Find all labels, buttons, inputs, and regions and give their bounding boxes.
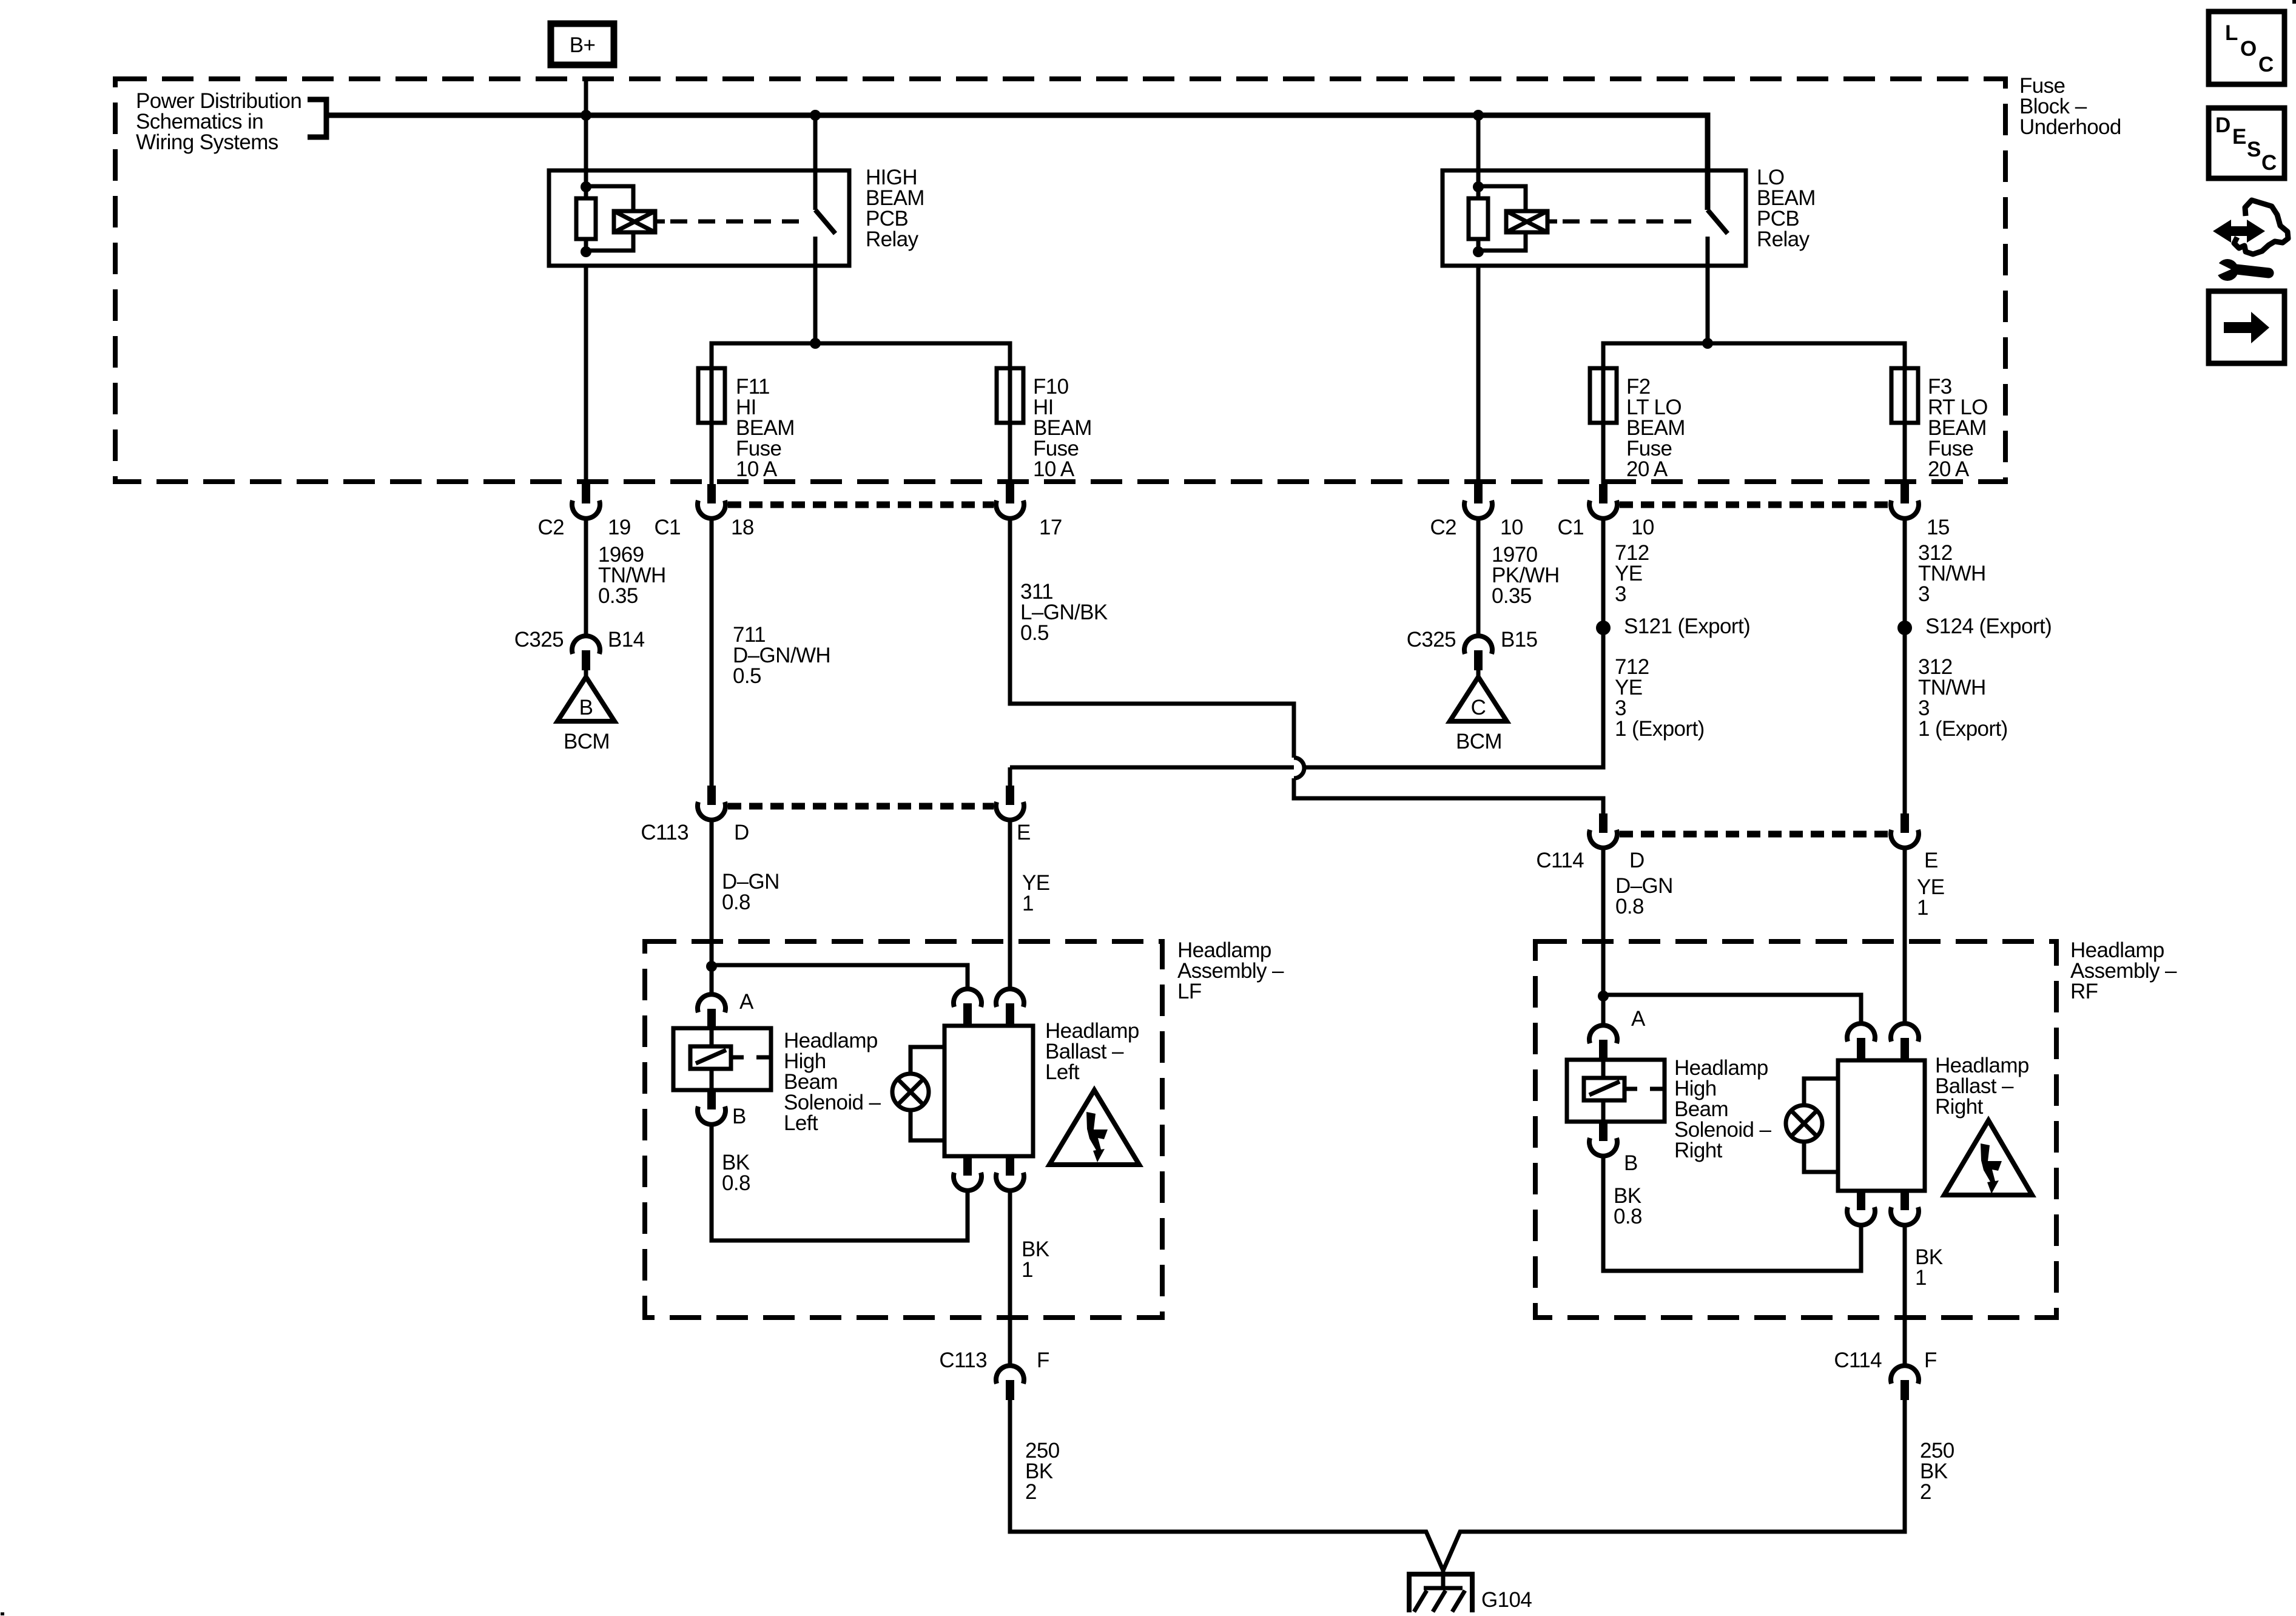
svg-text:C325: C325 — [1407, 628, 1456, 651]
label HIGH BEAM PCB Relay — [866, 166, 924, 251]
label LO BEAM PCB Relay — [1757, 166, 1816, 251]
svg-text:0.8: 0.8 — [722, 1171, 750, 1195]
svg-text:F: F — [1037, 1348, 1049, 1372]
connector C1 pin 10 — [1589, 484, 1617, 519]
wire 250 left to ground — [1010, 1400, 1443, 1571]
label Fuse Block Underhood — [2019, 74, 2121, 139]
label wire YE 1 right — [1917, 875, 1945, 920]
wire feed to HIGH relay switch — [813, 115, 818, 210]
solenoid RF box — [1567, 1060, 1665, 1122]
HIGH relay switch blade — [815, 210, 835, 234]
wire C2-19 from HIGH relay — [584, 266, 588, 484]
label F10 HI BEAM Fuse 10 A — [1033, 375, 1092, 481]
wire 311 from pin 17 to C114-D — [1010, 518, 1603, 813]
icon DESC box — [2209, 108, 2284, 178]
wire C113-E into assembly — [1008, 820, 1012, 991]
label B left — [732, 1105, 746, 1128]
ballast RF box — [1838, 1060, 1925, 1191]
fuse F11 — [698, 368, 725, 423]
wire C325 to BCM B — [584, 670, 588, 681]
label Headlamp Assembly RF — [2070, 938, 2177, 1003]
svg-text:A: A — [1631, 1007, 1646, 1031]
node HIGH relay coil top — [581, 181, 591, 192]
label wire 250 BK 2 left — [1025, 1439, 1060, 1504]
svg-text:S: S — [2247, 138, 2261, 161]
HIGH relay coil — [586, 186, 655, 251]
solenoid LF box — [673, 1028, 771, 1090]
label F2 LT LO BEAM Fuse 20 A — [1626, 375, 1685, 481]
connector RF ballast top left pin — [1847, 1023, 1875, 1060]
wire HIGH relay switch output — [813, 237, 818, 343]
svg-text:1 (Export): 1 (Export) — [1615, 717, 1705, 741]
wire 250 right to ground — [1443, 1400, 1905, 1571]
svg-text:0.5: 0.5 — [1020, 621, 1049, 645]
label wire 250 BK 2 right — [1920, 1439, 1954, 1504]
label C2 / 19 — [537, 516, 630, 539]
svg-text:C114: C114 — [1834, 1348, 1882, 1372]
wire C325 to BCM C — [1476, 670, 1481, 681]
label wire 312 TN/WH 3 1 (Export) — [1918, 655, 2008, 741]
node LO relay coil bottom — [1473, 246, 1484, 257]
label C114 / D / E — [1536, 849, 1937, 872]
label C1 / 18 — [654, 516, 753, 539]
svg-text:0.35: 0.35 — [1492, 584, 1532, 608]
svg-text:1: 1 — [1022, 1258, 1033, 1282]
wire 712 from C1-10 to C113-E — [1010, 518, 1603, 786]
svg-text:1: 1 — [1915, 1266, 1927, 1290]
label wire 1970 PK/WH 0.35 — [1492, 543, 1560, 608]
svg-text:E: E — [2232, 125, 2246, 149]
label Headlamp Assembly LF — [1177, 938, 1284, 1003]
label C1 / 10 — [1557, 516, 1654, 539]
wire ground tail — [1441, 1568, 1446, 1589]
label wire D-GN 0.8 left — [722, 870, 779, 914]
label C325 / B14 — [514, 628, 645, 651]
node HIGH fuse junction — [810, 338, 821, 349]
wire LF solenoid B to ballast — [712, 1124, 968, 1241]
fuse block underhood dashed box — [115, 79, 2005, 482]
label C2 / 10 — [1430, 516, 1523, 539]
label A left — [739, 990, 754, 1014]
relay HIGH BEAM PCB box — [549, 170, 849, 266]
icon arrow box — [2209, 291, 2284, 363]
LO relay resistor — [1469, 187, 1488, 252]
svg-text:B14: B14 — [608, 628, 645, 651]
label wire BK 0.8 right — [1614, 1184, 1642, 1228]
label C113 / F — [939, 1348, 1049, 1372]
svg-text:Right: Right — [1935, 1095, 1984, 1119]
solenoid RF wire through — [1601, 1061, 1606, 1120]
node LO fuse junction — [1702, 338, 1713, 349]
label C114 / F — [1834, 1348, 1936, 1372]
fuse F2 — [1590, 368, 1617, 423]
svg-text:A: A — [739, 990, 754, 1014]
svg-text:C2: C2 — [537, 516, 564, 539]
label wire 311 L-GN/BK 0.5 — [1020, 580, 1108, 645]
label A right — [1631, 1007, 1646, 1031]
connector LF solenoid pin B — [698, 1090, 725, 1125]
svg-text:E: E — [1924, 849, 1938, 872]
node feed junction high relay switch — [810, 110, 821, 121]
svg-text:Relay: Relay — [866, 227, 919, 251]
node HIGH relay coil bottom — [581, 246, 591, 257]
wire LO relay output to fuses — [1603, 343, 1905, 484]
node RF solenoid feed junction — [1598, 991, 1609, 1002]
wire HIGH relay output to fuses — [712, 343, 1010, 484]
svg-text:RF: RF — [2070, 980, 2098, 1003]
label wire BK 1 left — [1022, 1237, 1049, 1282]
svg-text:L: L — [2225, 21, 2238, 45]
lamp LF links to ballast — [911, 1047, 944, 1140]
label 17 — [1039, 516, 1062, 539]
wire RF ballast output BK 1 — [1903, 1224, 1907, 1366]
label wire BK 0.8 left — [722, 1151, 750, 1195]
node feed junction low relay coil — [1473, 110, 1484, 121]
svg-text:18: 18 — [731, 516, 754, 539]
label F11 HI BEAM Fuse 10 A — [736, 375, 795, 481]
svg-text:3: 3 — [1615, 582, 1626, 606]
connector LF ballast bottom right pin — [996, 1156, 1024, 1191]
label B right — [1624, 1151, 1638, 1175]
svg-text:0.8: 0.8 — [1614, 1205, 1642, 1228]
icon LOC box — [2209, 12, 2284, 84]
connector C2 pin 19 — [572, 484, 600, 519]
label Headlamp Ballast Right — [1935, 1054, 2029, 1119]
svg-text:15: 15 — [1927, 516, 1950, 539]
connector C325 pin B14 — [572, 636, 600, 670]
connector C1 pin 18 — [698, 484, 725, 519]
warning triangle RF — [1944, 1120, 2032, 1195]
svg-text:Left: Left — [1045, 1060, 1080, 1084]
wire 1969 to C325 — [584, 518, 588, 636]
label BCM right — [1456, 730, 1502, 753]
svg-text:B+: B+ — [570, 33, 596, 57]
lamp RF bulb symbol — [1786, 1105, 1822, 1142]
svg-text:C: C — [1471, 696, 1486, 719]
svg-text:C: C — [2258, 53, 2274, 76]
svg-text:B: B — [732, 1105, 746, 1128]
connector C113 dashed link D-E — [728, 803, 994, 810]
svg-text:10 A: 10 A — [736, 457, 778, 481]
fuse F10 — [997, 368, 1023, 423]
wire C2-10 from LO relay — [1476, 266, 1481, 484]
splice S124 — [1897, 621, 1912, 635]
label wire D-GN 0.8 right — [1615, 874, 1673, 918]
svg-text:0.35: 0.35 — [598, 584, 638, 608]
wire branch to ballast left pin — [712, 965, 968, 991]
battery feed B+ terminal box — [551, 24, 614, 65]
connector C113 pin D — [698, 786, 725, 820]
svg-text:F: F — [1924, 1348, 1937, 1372]
svg-text:C114: C114 — [1536, 849, 1584, 872]
BCM triangle C — [1450, 677, 1507, 721]
node LF solenoid feed junction — [706, 961, 717, 972]
connector C1 dashed link 18-17 — [728, 502, 994, 508]
label 15 — [1927, 516, 1950, 539]
solenoid RF winding symbol — [1584, 1078, 1624, 1100]
svg-text:Right: Right — [1674, 1139, 1723, 1162]
label C325 / B15 — [1407, 628, 1538, 651]
wire RF solenoid B to ballast — [1603, 1154, 1861, 1271]
solenoid LF winding symbol — [690, 1046, 731, 1069]
connector C2 pin 10 — [1464, 484, 1492, 519]
wire branch to ballast left pin right — [1603, 995, 1861, 1024]
connector LF ballast bottom left pin — [954, 1156, 981, 1191]
label BCM left — [564, 730, 610, 753]
label F3 RT LO BEAM Fuse 20 A — [1928, 375, 1988, 481]
wire B+ down to feed line — [584, 76, 588, 115]
label wire 1969 TN/WH 0.35 — [598, 543, 666, 608]
connector C1 dashed link 10-15 — [1620, 502, 1888, 508]
svg-text:0.5: 0.5 — [733, 664, 761, 688]
svg-text:3: 3 — [1918, 582, 1930, 606]
connector C113 pin E — [996, 786, 1024, 820]
svg-text:C1: C1 — [654, 516, 681, 539]
solenoid RF dashed link — [1624, 1087, 1663, 1091]
svg-text:20 A: 20 A — [1928, 457, 1970, 481]
note text Power Distribution Schematics in Wiring Systems — [136, 89, 301, 154]
svg-text:10: 10 — [1500, 516, 1523, 539]
connector pin 15 — [1891, 484, 1919, 519]
HIGH relay coil to switch dashed link — [655, 220, 810, 224]
label C113 / D / E — [641, 821, 1030, 844]
node feed junction at B+ — [581, 110, 591, 121]
svg-text:2: 2 — [1920, 1480, 1931, 1504]
svg-text:BCM: BCM — [564, 730, 610, 753]
svg-text:O: O — [2240, 37, 2257, 61]
label S124 (Export) — [1925, 614, 2052, 638]
label Headlamp High Beam Solenoid Left — [784, 1029, 881, 1135]
connector C114 pin F — [1891, 1365, 1919, 1400]
warning triangle LF — [1049, 1090, 1139, 1165]
svg-text:B: B — [1624, 1151, 1638, 1175]
svg-text:1: 1 — [1917, 896, 1928, 920]
svg-text:Relay: Relay — [1757, 227, 1810, 251]
ground symbol G104 — [1409, 1574, 1472, 1612]
connector C114 dashed link D-E — [1620, 831, 1888, 838]
solenoid LF dashed link — [731, 1055, 769, 1060]
LO relay coil — [1478, 186, 1547, 251]
note bracket — [308, 99, 326, 137]
headlamp assembly RF dashed box — [1535, 941, 2056, 1318]
corner tick top right — [2292, 0, 2296, 4]
svg-text:19: 19 — [608, 516, 631, 539]
connector RF solenoid pin A — [1589, 1025, 1617, 1061]
svg-text:Underhood: Underhood — [2019, 115, 2121, 139]
svg-text:0.8: 0.8 — [1615, 895, 1644, 918]
label Headlamp High Beam Solenoid Right — [1674, 1056, 1772, 1162]
connector RF ballast bottom right pin — [1891, 1191, 1919, 1225]
svg-text:C113: C113 — [641, 821, 688, 844]
svg-text:D: D — [734, 821, 749, 844]
label wire 312 TN/WH 3 upper — [1918, 541, 1986, 606]
label wire BK 1 right — [1915, 1245, 1943, 1290]
connector C113 pin F — [996, 1365, 1024, 1400]
connector RF ballast top right pin — [1891, 1023, 1919, 1060]
wire 312 from pin 15 to C114-E — [1903, 518, 1907, 813]
wire C2-10 feed to LO relay coil — [1476, 115, 1481, 187]
solenoid LF wire through — [710, 1029, 714, 1089]
label G104 — [1481, 1588, 1532, 1612]
svg-text:S124 (Export): S124 (Export) — [1925, 614, 2052, 638]
lamp RF links to ballast — [1804, 1079, 1838, 1172]
wire 711 to C113-D — [710, 518, 714, 786]
wire C114-D into assembly — [1601, 847, 1606, 1026]
svg-text:C113: C113 — [939, 1348, 987, 1372]
svg-text:E: E — [1017, 821, 1031, 844]
BCM triangle B — [557, 677, 614, 721]
svg-text:C1: C1 — [1557, 516, 1584, 539]
svg-text:G104: G104 — [1481, 1588, 1532, 1612]
label wire 712 YE 3 1 (Export) — [1615, 655, 1705, 741]
connector C325 pin B15 — [1464, 636, 1492, 670]
connector LF ballast top left pin — [954, 989, 981, 1026]
fuse F3 — [1891, 368, 1918, 423]
wire 1970 to C325 — [1476, 518, 1481, 636]
lamp LF bulb symbol — [892, 1074, 929, 1110]
svg-text:Wiring Systems: Wiring Systems — [136, 130, 278, 154]
splice S121 — [1596, 621, 1611, 635]
label wire 711 D-GN/WH 0.5 — [733, 623, 830, 688]
svg-text:C2: C2 — [1430, 516, 1456, 539]
svg-text:1 (Export): 1 (Export) — [1918, 717, 2008, 741]
svg-text:2: 2 — [1025, 1480, 1037, 1504]
label Headlamp Ballast Left — [1045, 1019, 1139, 1084]
corner dot bottom left — [1, 1612, 4, 1615]
svg-text:17: 17 — [1039, 516, 1062, 539]
feed wire from bracket to LO relay — [328, 115, 1708, 210]
wire LF ballast output BK 1 — [1008, 1189, 1012, 1366]
headlamp assembly LF dashed box — [645, 941, 1162, 1318]
wire B+ to HIGH relay coil — [584, 115, 588, 187]
connector C114 pin E — [1891, 813, 1919, 848]
svg-text:D: D — [2215, 113, 2230, 137]
icon hand with arrow and wrench — [2212, 200, 2288, 281]
svg-text:D: D — [1629, 849, 1645, 872]
svg-text:B15: B15 — [1501, 628, 1537, 651]
svg-text:10 A: 10 A — [1033, 457, 1075, 481]
svg-text:BCM: BCM — [1456, 730, 1502, 753]
node LO relay coil top — [1473, 181, 1484, 192]
svg-text:10: 10 — [1631, 516, 1654, 539]
label wire YE 1 left — [1022, 871, 1050, 915]
connector LF ballast top right pin — [996, 989, 1024, 1026]
LO relay coil to switch dashed link — [1547, 220, 1702, 224]
connector C114 pin D — [1589, 813, 1617, 848]
connector RF ballast bottom left pin — [1847, 1191, 1875, 1225]
wire C113-D into assembly — [710, 820, 714, 995]
connector LF solenoid pin A — [698, 994, 725, 1029]
relay LO BEAM PCB box — [1443, 170, 1746, 266]
connector pin 17 — [996, 484, 1024, 519]
svg-text:LF: LF — [1177, 980, 1202, 1003]
HIGH relay resistor — [576, 187, 596, 252]
svg-text:Left: Left — [784, 1111, 818, 1135]
ballast LF box — [944, 1026, 1033, 1156]
svg-text:20 A: 20 A — [1626, 457, 1668, 481]
wire C114-E into assembly — [1903, 847, 1907, 1025]
label S121 (Export) — [1624, 614, 1750, 638]
wire LO relay switch output — [1706, 237, 1710, 343]
svg-text:S121 (Export): S121 (Export) — [1624, 614, 1750, 638]
svg-text:B: B — [579, 696, 593, 719]
svg-text:0.8: 0.8 — [722, 890, 750, 914]
LO relay switch blade — [1708, 210, 1728, 234]
label wire 712 YE 3 upper — [1615, 541, 1649, 606]
svg-text:C: C — [2261, 151, 2277, 175]
svg-text:1: 1 — [1022, 892, 1034, 915]
svg-text:C325: C325 — [514, 628, 564, 651]
connector RF solenoid pin B — [1589, 1122, 1617, 1156]
